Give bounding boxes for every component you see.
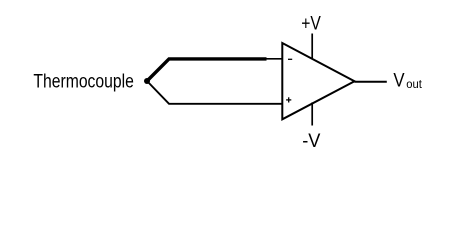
thermocouple wire B [147, 81, 282, 104]
svg-text:+V: +V [301, 14, 321, 35]
wire: +V supply [311, 34, 313, 59]
wire: -V supply [311, 102, 313, 125]
op-amp U1 [282, 43, 354, 119]
thermocouple junction dot [144, 78, 150, 84]
svg-text:-V: -V [302, 131, 321, 152]
svg-text:V: V [393, 71, 404, 92]
svg-text:Thermocouple: Thermocouple [33, 71, 133, 92]
svg-text:out: out [406, 77, 422, 91]
wire: output [355, 81, 387, 83]
thermocouple wire A (thick) [147, 59, 267, 81]
pin label + (non-inverting input) [286, 97, 291, 102]
pin label - (inverting input) [288, 58, 292, 60]
wire: inverting input stub [266, 58, 283, 60]
